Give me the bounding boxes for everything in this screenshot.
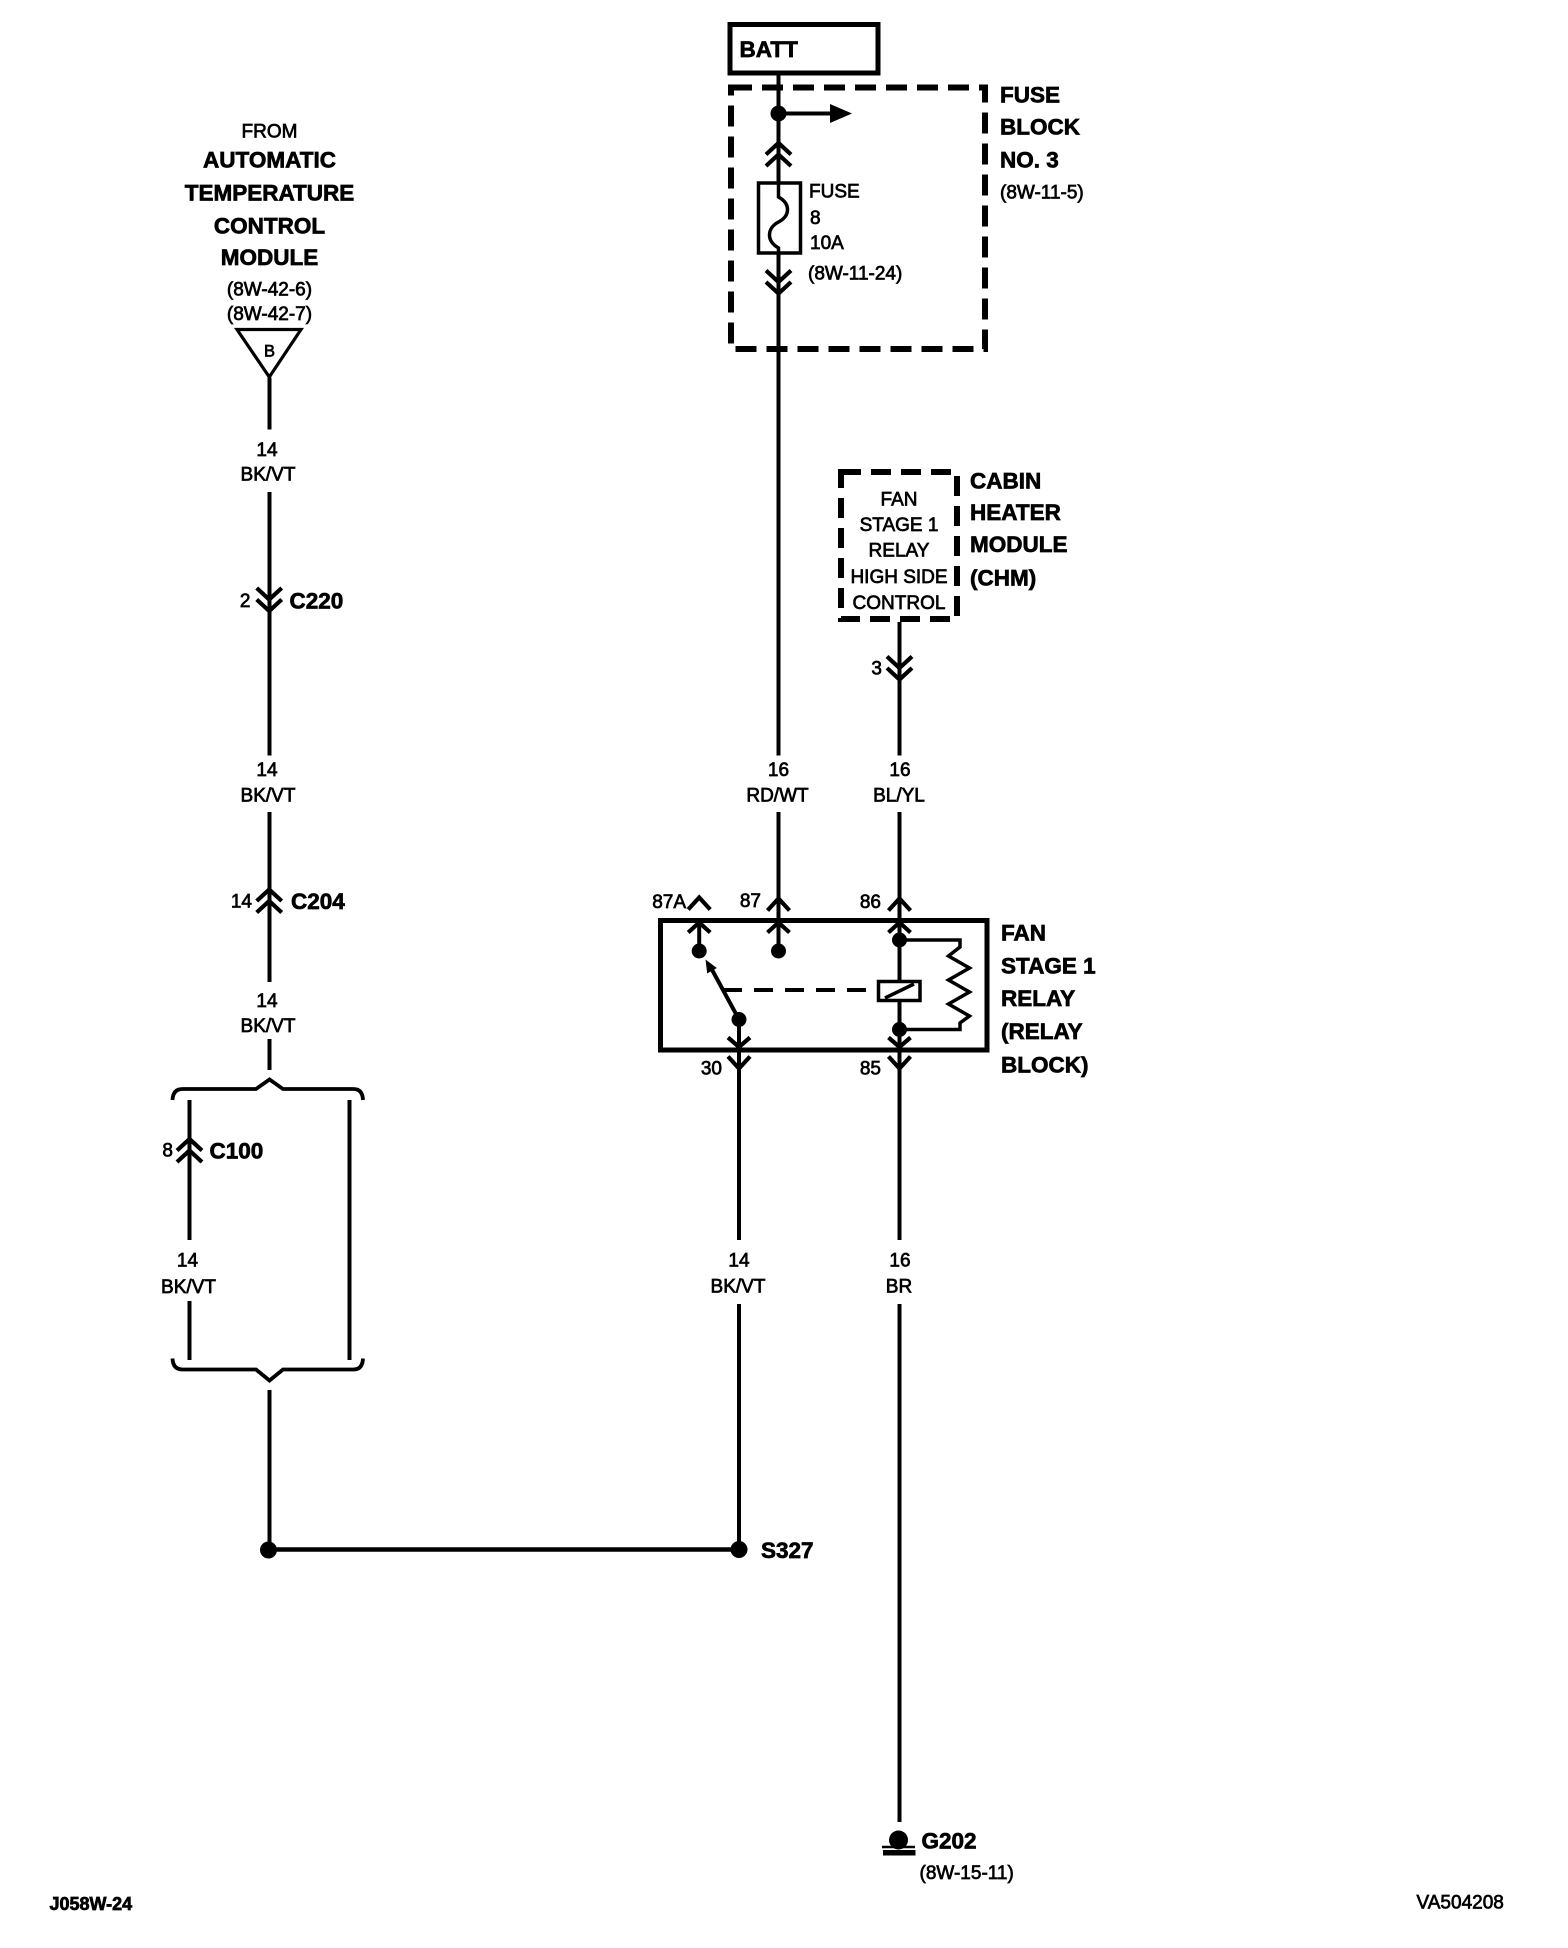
- svg-text:G202: G202: [922, 1828, 977, 1853]
- wire right branch in harness: [348, 1100, 352, 1360]
- svg-text:HEATER: HEATER: [970, 500, 1061, 525]
- svg-text:(RELAY: (RELAY: [1001, 1019, 1083, 1044]
- svg-text:B: B: [264, 343, 275, 361]
- svg-text:14: 14: [256, 991, 278, 1012]
- svg-text:C220: C220: [290, 589, 344, 614]
- svg-text:(8W-15-11): (8W-15-11): [920, 1863, 1014, 1884]
- svg-text:BK/VT: BK/VT: [241, 1016, 296, 1037]
- relay coil actuation dashed line: [723, 988, 879, 992]
- arrow to other circuits: [779, 104, 853, 123]
- svg-text:FUSE: FUSE: [1000, 83, 1060, 108]
- svg-text:14: 14: [256, 440, 278, 461]
- pin 87 internal connector and node: [768, 923, 790, 959]
- svg-text:CONTROL: CONTROL: [853, 593, 946, 614]
- svg-text:BL/YL: BL/YL: [873, 786, 925, 807]
- pin 86 label and pin symbol: [860, 892, 911, 913]
- svg-text:MODULE: MODULE: [221, 245, 319, 270]
- svg-text:BK/VT: BK/VT: [711, 1277, 766, 1298]
- wire to splice S327: [737, 1304, 741, 1550]
- fuse 8: [759, 183, 801, 253]
- svg-text:87: 87: [740, 891, 761, 912]
- wire from CHM: [898, 622, 902, 756]
- svg-text:16: 16: [889, 1251, 910, 1272]
- svg-text:BLOCK: BLOCK: [1000, 114, 1081, 139]
- CHM dashed box: [841, 472, 957, 619]
- svg-text:(8W-42-6): (8W-42-6): [227, 280, 312, 301]
- svg-text:16: 16: [768, 760, 789, 781]
- BATT box: [730, 25, 878, 74]
- wire label 14 BK/VT: [241, 991, 296, 1037]
- svg-text:S327: S327: [761, 1538, 814, 1563]
- wire left branch in harness: [188, 1100, 192, 1240]
- connector chevron below fuse: [766, 271, 791, 294]
- svg-text:FAN: FAN: [881, 490, 918, 511]
- svg-text:14: 14: [177, 1251, 199, 1272]
- svg-text:FROM: FROM: [242, 122, 298, 143]
- svg-text:14: 14: [256, 760, 278, 781]
- wire to ground G202: [898, 1304, 902, 1822]
- svg-text:BATT: BATT: [740, 37, 799, 62]
- svg-text:BK/VT: BK/VT: [241, 786, 296, 807]
- fuse block no.3 dashed box: [731, 88, 985, 350]
- pin 85 label and pin symbol: [860, 1057, 911, 1080]
- pin 87A internal connector and node: [688, 923, 710, 959]
- svg-text:30: 30: [701, 1059, 722, 1080]
- wire label 16 RD/WT: [746, 760, 809, 807]
- svg-text:(8W-11-24): (8W-11-24): [808, 264, 902, 285]
- connector chevron above fuse: [766, 143, 791, 166]
- off-page connector triangle B: [237, 330, 301, 378]
- coil wire 86 to 85: [898, 940, 902, 1030]
- wire from triangle B: [268, 378, 272, 430]
- svg-text:CONTROL: CONTROL: [214, 213, 325, 238]
- node label FROM AUTOMATIC TEMPERATURE CONTROL MODULE: [185, 122, 355, 326]
- connector C204: [231, 889, 345, 914]
- svg-text:BR: BR: [886, 1277, 912, 1298]
- wire BATT to fuse: [777, 75, 781, 183]
- svg-text:FAN: FAN: [1001, 920, 1046, 945]
- svg-text:16: 16: [889, 760, 910, 781]
- pin 86 internal connector and node: [889, 923, 911, 948]
- node 85: [892, 1022, 907, 1037]
- wire from pin 30: [737, 1069, 741, 1241]
- svg-text:J058W-24: J058W-24: [50, 1894, 133, 1914]
- svg-text:C204: C204: [291, 889, 345, 914]
- wire label 14 BK/VT: [241, 440, 296, 486]
- wire into relay pin 87: [777, 812, 781, 951]
- connector C100: [162, 1139, 263, 1164]
- svg-text:HIGH SIDE: HIGH SIDE: [850, 567, 947, 588]
- svg-text:RELAY: RELAY: [1001, 986, 1075, 1011]
- relay coil box: [879, 982, 921, 1001]
- switch arm with arrowhead: [706, 960, 740, 1020]
- wire: [268, 812, 272, 982]
- wire label 16 BR: [886, 1251, 912, 1298]
- pin 87A label and pin symbol: [652, 892, 710, 913]
- svg-text:MODULE: MODULE: [970, 532, 1068, 557]
- svg-text:NO. 3: NO. 3: [1000, 147, 1059, 172]
- svg-text:RELAY: RELAY: [869, 541, 930, 562]
- svg-text:(CHM): (CHM): [970, 565, 1036, 590]
- wire below fuse: [777, 253, 781, 756]
- switch arm common node (pin 30): [732, 1012, 747, 1027]
- pin 87 label and pin symbol: [740, 891, 790, 912]
- fuse labels: [808, 182, 902, 285]
- label FUSE BLOCK NO. 3: [1000, 83, 1084, 204]
- svg-text:STAGE 1: STAGE 1: [860, 515, 939, 536]
- svg-text:85: 85: [860, 1059, 881, 1080]
- wire: [268, 1039, 272, 1070]
- svg-text:8: 8: [810, 208, 821, 229]
- label CABIN HEATER MODULE (CHM): [970, 468, 1068, 590]
- svg-text:(8W-42-7): (8W-42-7): [227, 304, 312, 325]
- wire: [188, 1301, 192, 1360]
- pin 85 wire and internal connector: [889, 1030, 911, 1069]
- svg-text:AUTOMATIC: AUTOMATIC: [203, 147, 336, 172]
- svg-text:87A: 87A: [652, 892, 686, 913]
- label inside FAN STAGE 1 RELAY HIGH SIDE CONTROL: [850, 490, 947, 615]
- svg-text:BK/VT: BK/VT: [241, 465, 296, 486]
- svg-text:8: 8: [162, 1141, 173, 1162]
- wire label 14 BK/VT: [241, 760, 296, 807]
- wire label 14 BK/VT: [161, 1251, 216, 1299]
- wire to splice: [268, 1390, 272, 1550]
- svg-text:STAGE 1: STAGE 1: [1001, 953, 1096, 978]
- connector pin 3: [871, 657, 912, 680]
- wire into relay pin 86: [898, 812, 902, 940]
- node junction dot: [771, 106, 787, 122]
- svg-text:86: 86: [860, 892, 881, 913]
- svg-text:RD/WT: RD/WT: [746, 786, 809, 807]
- pin 30 label and pin symbol: [701, 1057, 750, 1080]
- wire label 16 BL/YL: [873, 760, 925, 807]
- svg-text:2: 2: [240, 591, 251, 612]
- svg-text:FUSE: FUSE: [809, 182, 860, 203]
- svg-text:10A: 10A: [810, 233, 844, 254]
- harness brace top: [173, 1080, 364, 1101]
- coil suppression resistor: [900, 940, 970, 1030]
- svg-text:3: 3: [871, 659, 882, 680]
- svg-text:(8W-11-5): (8W-11-5): [1000, 183, 1084, 204]
- wire: [268, 492, 272, 756]
- label FAN STAGE 1 RELAY (RELAY BLOCK): [1001, 920, 1096, 1077]
- svg-text:C100: C100: [210, 1139, 264, 1164]
- pin 30 wire and internal connector: [728, 1020, 750, 1069]
- harness brace bottom: [173, 1359, 364, 1381]
- svg-text:VA504208: VA504208: [1417, 1893, 1504, 1914]
- svg-text:BK/VT: BK/VT: [161, 1277, 216, 1298]
- svg-text:BLOCK): BLOCK): [1001, 1052, 1088, 1077]
- svg-text:14: 14: [728, 1251, 750, 1272]
- wire from pin 85: [898, 1069, 902, 1241]
- relay box: [661, 921, 988, 1051]
- connector C220: [240, 588, 343, 614]
- svg-text:14: 14: [231, 892, 253, 913]
- svg-text:TEMPERATURE: TEMPERATURE: [185, 180, 355, 205]
- svg-text:CABIN: CABIN: [970, 468, 1041, 493]
- wire label 14 BK/VT: [711, 1251, 766, 1298]
